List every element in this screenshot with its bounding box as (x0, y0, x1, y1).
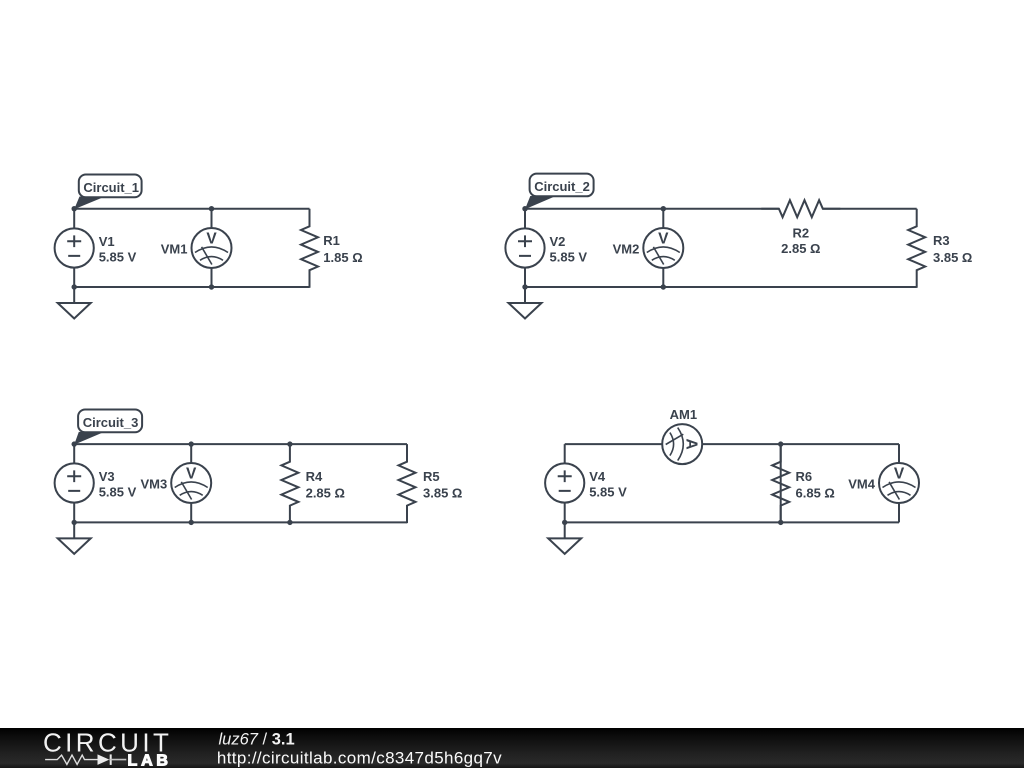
svg-text:2.85 Ω: 2.85 Ω (306, 485, 345, 500)
wire bottom rail circuit 3 (74, 521, 407, 523)
resistor R4 (281, 444, 298, 523)
node B3 (189, 441, 194, 446)
voltage source V2 (505, 228, 544, 267)
node A2 (522, 206, 527, 211)
label flag Circuit_1 (74, 175, 141, 210)
svg-text:1.85 Ω: 1.85 Ω (323, 250, 362, 265)
resistor R6 (772, 444, 789, 523)
svg-text:Circuit_2: Circuit_2 (534, 179, 590, 194)
logo resistor-diode squiggle (45, 754, 126, 765)
svg-text:5.85 V: 5.85 V (99, 249, 137, 264)
svg-text:3.85 Ω: 3.85 Ω (423, 485, 462, 500)
node D2 (661, 284, 666, 289)
svg-text:R3: R3 (933, 233, 950, 248)
wire bottom rail circuit 1 (74, 286, 309, 288)
node A4 (778, 441, 783, 446)
resistor R1 (301, 209, 318, 288)
wire left rail V1 (73, 209, 75, 287)
svg-text:Circuit_3: Circuit_3 (83, 415, 139, 430)
node C4 (562, 520, 567, 525)
svg-text:R4: R4 (306, 469, 323, 484)
svg-text:V2: V2 (550, 234, 566, 249)
ground circuit 4 (548, 522, 581, 554)
resistor R5 (399, 444, 416, 523)
svg-text:R1: R1 (323, 233, 340, 248)
wire voltmeter VM1 branch (211, 209, 213, 287)
voltmeter U-VM4 (879, 463, 919, 503)
wire left rail V4 (564, 444, 566, 522)
voltmeter U-VM3 (171, 463, 211, 503)
svg-text:6.85 Ω: 6.85 Ω (796, 485, 835, 500)
voltmeter U-VM2 (643, 228, 683, 268)
svg-text:luz67 / 3.1: luz67 / 3.1 (219, 731, 295, 749)
ammeter U-AM1 (662, 424, 702, 464)
wire top rail circuit 1 (74, 208, 309, 210)
svg-text:3.85 Ω: 3.85 Ω (933, 250, 972, 265)
svg-text:R5: R5 (423, 469, 440, 484)
wire top rail circuit 2 left of R2 (525, 208, 779, 210)
voltage source V4 (545, 463, 584, 502)
node E3 (287, 441, 292, 446)
svg-text:AM1: AM1 (670, 407, 697, 422)
voltmeter U-VM1 (192, 228, 232, 268)
ground circuit 2 (509, 287, 542, 319)
wire top rail circuit 3 (74, 443, 407, 445)
wire voltmeter VM2 branch (662, 209, 664, 287)
node D3 (189, 520, 194, 525)
wire bottom rail circuit 4 (565, 521, 899, 523)
footer bar background (0, 728, 1024, 768)
resistor R2 (horizontal) (761, 200, 840, 217)
svg-text:5.85 V: 5.85 V (589, 484, 627, 499)
label flag Circuit_3 (74, 410, 142, 445)
svg-text:2.85 Ω: 2.85 Ω (781, 241, 820, 256)
svg-text:VM1: VM1 (161, 241, 188, 256)
svg-text:http://circuitlab.com/c8347d5h: http://circuitlab.com/c8347d5h6gq7v (217, 749, 502, 768)
svg-text:VM4: VM4 (848, 476, 876, 491)
wire top rail circuit 2 right of R2 (823, 208, 917, 210)
voltage source V3 (55, 463, 94, 502)
wire left rail V3 (73, 444, 75, 522)
node B2 (661, 206, 666, 211)
node D1 (209, 284, 214, 289)
svg-text:VM3: VM3 (140, 476, 167, 491)
node B4 (778, 520, 783, 525)
ground circuit 1 (58, 287, 91, 319)
node C2 (522, 284, 527, 289)
svg-text:V4: V4 (589, 469, 606, 484)
wire bottom rail circuit 2 (525, 286, 917, 288)
node C1 (72, 284, 77, 289)
wire voltmeter VM4 right rail (898, 444, 900, 522)
wire top rail circuit 4 (565, 443, 899, 445)
svg-text:V3: V3 (99, 469, 115, 484)
label flag Circuit_2 (525, 174, 594, 210)
svg-text:5.85 V: 5.85 V (99, 484, 137, 499)
wire left rail V2 (524, 209, 526, 287)
svg-text:VM2: VM2 (613, 241, 640, 256)
svg-text:R2: R2 (792, 226, 809, 241)
svg-text:R6: R6 (796, 469, 813, 484)
wire voltmeter VM3 branch (190, 444, 192, 522)
voltage source V1 (55, 228, 94, 267)
node A3 (72, 441, 77, 446)
node B1 (209, 206, 214, 211)
wire resistor R6 branch (780, 444, 782, 522)
resistor R3 (908, 209, 925, 288)
node F3 (287, 520, 292, 525)
svg-text:LAB: LAB (128, 753, 172, 768)
node A1 (72, 206, 77, 211)
svg-text:5.85 V: 5.85 V (550, 249, 588, 264)
node C3 (72, 520, 77, 525)
svg-text:Circuit_1: Circuit_1 (83, 180, 139, 195)
ground circuit 3 (58, 522, 91, 554)
svg-text:V1: V1 (99, 234, 115, 249)
